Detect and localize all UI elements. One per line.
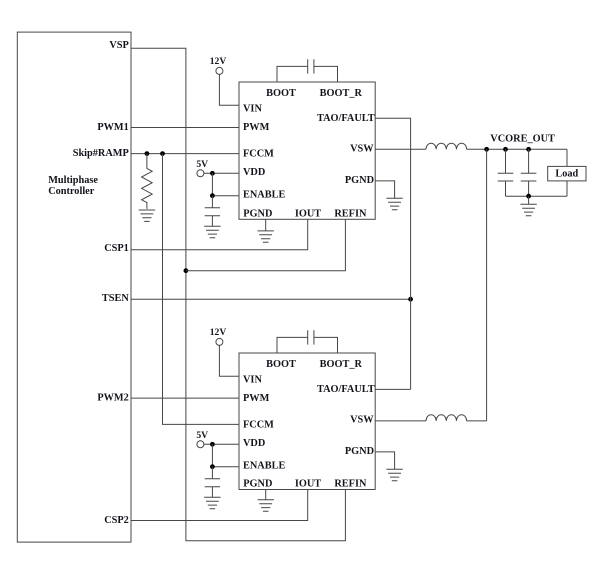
svg-text:Load: Load	[555, 168, 578, 179]
svg-text:Controller: Controller	[48, 186, 95, 197]
ground under U2 PGND	[258, 500, 274, 511]
inductor L2	[426, 415, 467, 421]
svg-text:VSP: VSP	[109, 40, 128, 51]
svg-text:TAO/FAULT: TAO/FAULT	[317, 384, 375, 395]
svg-text:PWM2: PWM2	[97, 392, 128, 403]
svg-text:PGND: PGND	[243, 479, 272, 490]
svg-text:12V: 12V	[210, 327, 227, 338]
svg-text:BOOT: BOOT	[266, 359, 296, 370]
svg-text:REFIN: REFIN	[334, 479, 367, 490]
svg-text:VDD: VDD	[243, 438, 265, 449]
supply 5V phase2	[196, 430, 208, 448]
wire FCCM2 branch down	[163, 154, 240, 425]
wire VCORE rail	[467, 148, 567, 150]
ground under capacitor C3	[204, 497, 220, 508]
node junction resistor tap	[145, 151, 150, 156]
svg-text:PGND: PGND	[243, 208, 272, 219]
svg-text:VIN: VIN	[243, 103, 262, 114]
svg-text:TAO/FAULT: TAO/FAULT	[317, 113, 375, 124]
svg-text:PWM1: PWM1	[97, 122, 128, 133]
wire TSEN	[131, 298, 411, 300]
svg-text:VSW: VSW	[350, 144, 374, 155]
svg-text:VDD: VDD	[243, 167, 265, 178]
supply 5V phase1	[196, 159, 208, 177]
svg-text:PGND: PGND	[345, 175, 374, 186]
svg-text:ENABLE: ENABLE	[243, 190, 285, 201]
svg-text:BOOT: BOOT	[266, 88, 296, 99]
svg-text:Multiphase: Multiphase	[48, 175, 98, 186]
node junction TSEN/TAO-FAULT	[408, 297, 413, 302]
svg-text:CSP1: CSP1	[104, 243, 129, 254]
ground at U2 PGND right	[386, 469, 402, 480]
svg-text:PWM: PWM	[243, 393, 270, 404]
node junction ENABLE1	[210, 193, 215, 198]
wire VDD1 node down to ENABLE1	[212, 173, 239, 195]
wire riser to phase2 VSW	[486, 149, 488, 421]
wire VDD2 node down to ENABLE2	[212, 444, 239, 466]
svg-text:Skip#RAMP: Skip#RAMP	[73, 148, 129, 159]
svg-text:5V: 5V	[196, 159, 208, 170]
node junction output cap Cout1	[503, 147, 508, 152]
multiphase controller box U0	[17, 32, 131, 542]
wire VSW2 to inductor	[375, 420, 426, 422]
capacitor Cout2	[521, 149, 537, 196]
converter IC U1 box	[239, 82, 375, 219]
svg-text:5V: 5V	[196, 430, 208, 441]
svg-text:REFIN: REFIN	[334, 208, 367, 219]
svg-text:12V: 12V	[210, 56, 227, 67]
ground under capacitor C1	[204, 226, 220, 237]
wire PGND1 bottom stub	[265, 219, 267, 231]
wire REFIN1 to VSP net	[186, 219, 346, 270]
wire VSW1 to inductor	[375, 148, 426, 150]
wire TAO/FAULT1 to TAO/FAULT2	[375, 118, 410, 389]
wire to load top	[566, 149, 568, 166]
label Multiphase Controller	[48, 175, 98, 197]
capacitor C2 plates	[308, 59, 314, 73]
node junction VDD1	[210, 171, 215, 176]
wire PWM2	[131, 397, 239, 399]
svg-text:BOOT_R: BOOT_R	[320, 88, 363, 99]
wire load bottom	[566, 181, 568, 196]
wire 5V to VDD1	[204, 172, 239, 174]
wire VSP net: right then down then along bottom to REFIN2	[131, 48, 345, 540]
wire inductor L2 to riser	[467, 420, 487, 422]
wire PGND1 right	[375, 181, 394, 198]
svg-text:PGND: PGND	[345, 446, 374, 457]
boot capacitor C4 wiring phase2	[277, 337, 338, 353]
capacitor C1 (5V decoupling phase1)	[205, 196, 220, 227]
inductor L1	[426, 143, 467, 149]
wire 12V to VIN2	[219, 345, 239, 376]
ground under resistor R1	[139, 210, 155, 221]
wire PGND2 right	[375, 452, 394, 469]
ground at U1 PGND right	[386, 198, 402, 209]
capacitor C4 plates	[308, 330, 314, 344]
ground at output rail	[520, 196, 536, 216]
svg-text:VIN: VIN	[243, 374, 262, 385]
capacitor Cout1	[498, 149, 514, 196]
svg-text:VCORE_OUT: VCORE_OUT	[490, 134, 555, 145]
supply 12V phase2	[210, 327, 227, 346]
node junction output cap Cout2	[526, 147, 531, 152]
supply 12V phase1	[210, 56, 227, 75]
svg-text:CSP2: CSP2	[104, 515, 129, 526]
node junction ENABLE2	[210, 464, 215, 469]
node junction VDD2	[210, 442, 215, 447]
wire 12V to VIN1	[219, 74, 239, 105]
wire PWM1	[131, 127, 239, 129]
svg-text:VSW: VSW	[350, 415, 374, 426]
capacitor C3 (5V decoupling phase2)	[205, 467, 220, 498]
load box	[548, 166, 586, 181]
svg-text:PWM: PWM	[243, 122, 270, 133]
wire 5V to VDD2	[204, 443, 239, 445]
converter IC U2 box	[239, 353, 375, 490]
svg-text:TSEN: TSEN	[102, 293, 129, 304]
wire CSP1 to IOUT1	[131, 219, 308, 250]
svg-text:FCCM: FCCM	[243, 419, 274, 430]
wire TAO/FAULT2	[375, 388, 410, 390]
svg-text:ENABLE: ENABLE	[243, 461, 285, 472]
ground under U1 PGND	[258, 231, 274, 242]
wire CSP2 to IOUT2	[131, 490, 308, 521]
wire PGND2 bottom stub	[265, 490, 267, 500]
svg-text:BOOT_R: BOOT_R	[320, 359, 363, 370]
resistor R1	[142, 154, 153, 209]
wire Skip#RAMP to FCCM1	[131, 153, 239, 155]
wire output bottom rail	[506, 195, 568, 197]
node junction bottom rail ground	[526, 194, 531, 199]
boot capacitor C2 wiring phase1	[277, 66, 338, 82]
node junction phase2 riser	[484, 147, 489, 152]
svg-text:FCCM: FCCM	[243, 148, 274, 159]
node junction FCCM2 branch	[160, 151, 165, 156]
svg-text:IOUT: IOUT	[295, 208, 321, 219]
svg-text:IOUT: IOUT	[295, 479, 321, 490]
node junction VSP/REFIN1	[184, 268, 189, 273]
